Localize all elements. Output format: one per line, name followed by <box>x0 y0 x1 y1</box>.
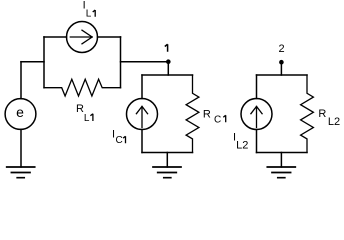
wire: e source top lead <box>20 62 22 99</box>
wire: top branch left segment <box>44 36 67 38</box>
svg-text:R: R <box>318 108 326 120</box>
resistor R_L1 <box>44 79 121 96</box>
wire: C1 group top bar <box>142 74 193 76</box>
current source I_C1 <box>127 99 158 130</box>
wire: e source bottom lead <box>20 129 22 167</box>
svg-text:R: R <box>203 108 211 120</box>
wire: top branch right segment <box>98 36 121 38</box>
node label 1 <box>165 44 168 52</box>
svg-text:L: L <box>84 113 90 124</box>
wire: C1 group left lead <box>141 75 143 99</box>
node 2 junction dot <box>279 60 284 65</box>
wire: node 2 stem <box>280 62 282 75</box>
current source I_L1 <box>67 22 98 53</box>
svg-text:L2: L2 <box>236 140 248 152</box>
wire: L2 group left lead <box>256 75 258 99</box>
svg-text:C: C <box>214 114 221 125</box>
wire: node 1 stem <box>167 62 169 75</box>
wire: C1 group bottom bar <box>142 152 193 154</box>
wire: L2 group left lower lead <box>256 130 258 153</box>
resistor R_L2 <box>301 75 314 153</box>
svg-text:L: L <box>86 9 92 20</box>
wire: tee from e branch to parallel loop <box>21 61 44 63</box>
wire: C1 ground stem <box>166 153 168 168</box>
node 1 junction dot <box>166 59 171 64</box>
wire: loop right bar <box>120 37 122 88</box>
wire: mid wire to node 1 <box>121 61 169 63</box>
ground (under C1 group) <box>153 167 181 178</box>
current source I_L2 <box>241 99 272 130</box>
ground (under L2 group) <box>267 167 295 178</box>
resistor R_C1 <box>186 75 199 153</box>
wire: L2 group bottom bar <box>257 152 308 154</box>
svg-text:e: e <box>16 104 24 120</box>
voltage source e <box>5 99 36 130</box>
svg-text:2: 2 <box>278 43 284 55</box>
wire: loop left bar <box>43 37 45 88</box>
svg-text:L2: L2 <box>328 116 340 128</box>
svg-text:R: R <box>76 103 84 115</box>
wire: L2 ground stem <box>280 153 282 168</box>
wire: L2 group top bar <box>257 74 308 76</box>
ground (under e) <box>7 167 35 178</box>
svg-text:C: C <box>116 135 123 146</box>
wire: C1 group left lower lead <box>141 130 143 153</box>
